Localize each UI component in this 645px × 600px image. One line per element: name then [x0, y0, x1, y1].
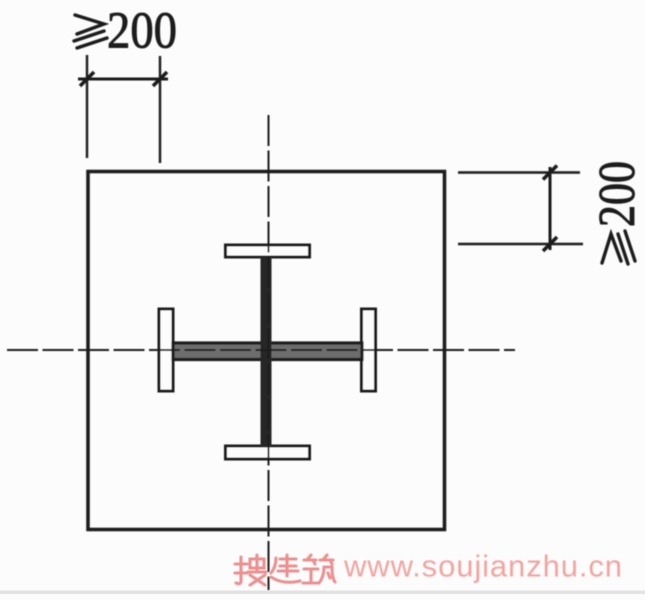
- right dimension: dimension line: [549, 167, 552, 250]
- column outline (square): [88, 172, 445, 530]
- watermark: chinese characters 搜建筑 (drawn strokes): [235, 555, 335, 585]
- bottom gray separator line: [0, 591, 645, 595]
- right dimension: top tick: [543, 166, 557, 180]
- right dimension: top extension line: [458, 171, 580, 173]
- 建: [271, 555, 300, 582]
- top dimension: left extension line: [86, 55, 88, 158]
- horizontal centerline: [7, 349, 515, 351]
- right dimension label (rotated): geq + 200: [589, 161, 645, 264]
- horizontal web: [173, 343, 362, 360]
- right dimension: bottom extension line: [458, 243, 583, 245]
- left flange plate: [159, 309, 173, 391]
- right dimension: bottom tick: [543, 237, 557, 251]
- bottom flange plate: [226, 446, 310, 459]
- vertical centerline: [268, 115, 270, 590]
- top dimension: dimension line: [78, 78, 168, 81]
- 筑: [303, 555, 335, 583]
- svg-text:200: 200: [107, 3, 177, 60]
- right flange plate: [362, 309, 376, 391]
- svg-text:www.soujianzhu.cn: www.soujianzhu.cn: [343, 549, 623, 584]
- top dimension: right extension line: [159, 56, 161, 163]
- svg-text:200: 200: [589, 161, 645, 227]
- top dimension: left tick: [80, 72, 94, 86]
- top dimension: right tick: [153, 72, 167, 86]
- vertical web: [261, 257, 272, 447]
- top dimension label: geq symbol: [74, 15, 107, 48]
- top flange plate: [226, 245, 310, 257]
- 搜: [235, 555, 266, 585]
